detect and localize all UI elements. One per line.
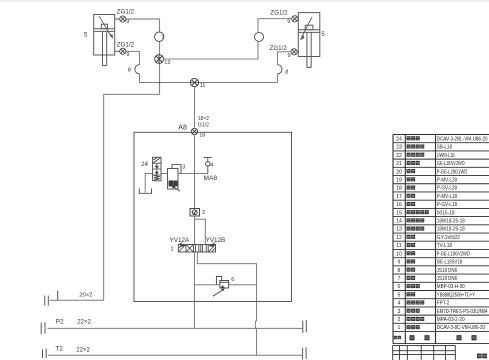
svg-text:9: 9 (126, 19, 129, 25)
pipe 20x2 (49, 299, 103, 301)
svg-text:21: 21 (396, 161, 402, 167)
svg-text:T2: T2 (55, 345, 63, 352)
svg-text:MA8: MA8 (204, 175, 218, 182)
coupling 9 (right mid): circle-X (291, 49, 298, 55)
pipe P2 break symbols (41, 322, 45, 334)
pipe P2 (48, 327, 303, 329)
svg-text:6: 6 (398, 284, 401, 290)
cylinder 5 (right) body (298, 13, 320, 68)
svg-text:20: 20 (396, 169, 402, 175)
svg-text:ZG1/2: ZG1/2 (117, 42, 135, 49)
svg-text:16: 16 (396, 202, 402, 208)
svg-text:14: 14 (396, 219, 402, 225)
manifold block outline (134, 132, 292, 301)
svg-text:YB888Q2506+TC+Y: YB888Q2506+TC+Y (437, 292, 476, 298)
svg-text:12: 12 (396, 235, 402, 241)
svg-text:11: 11 (200, 83, 206, 89)
svg-text:P-GE-L28G1WD: P-GE-L28G1WD (437, 169, 468, 175)
svg-text:4: 4 (398, 301, 401, 307)
T-line crossing jump over P2 (255, 320, 256, 356)
svg-text:JS18 DN6: JS18 DN6 (437, 268, 457, 274)
svg-text:DCAV-3-2BL-VM-U86-20: DCAV-3-2BL-VM-U86-20 (437, 136, 488, 142)
relief valve 6 (213, 276, 229, 296)
svg-text:UWM-L18: UWM-L18 (437, 153, 455, 159)
svg-text:13: 13 (396, 227, 402, 233)
coupling 9 (left mid): circle-X (115, 48, 126, 54)
pipe 20x2 break symbol (45, 296, 49, 306)
svg-text:22×2: 22×2 (76, 348, 90, 354)
wire: 2 down to valve 1, plus pilot branch (195, 216, 206, 245)
gauge point 4 / MA8 (204, 157, 213, 173)
svg-text:9: 9 (398, 260, 401, 266)
cylinder 5 (left) body (94, 15, 115, 66)
top edge strip (0, 0, 489, 2)
svg-text:GY-2x50/2: GY-2x50/2 (437, 235, 460, 241)
svg-text:SB-L18: SB-L18 (437, 145, 452, 151)
title block grid (393, 345, 456, 360)
svg-text:GE-L18SV18: GE-L18SV18 (437, 260, 462, 266)
cylinder 5 (right) load arrow (302, 17, 313, 38)
svg-text:12: 12 (164, 60, 170, 66)
svg-text:MPA-03-2-20: MPA-03-2-20 (437, 317, 465, 323)
svg-text:2: 2 (398, 317, 401, 323)
relief branch line (194, 284, 256, 286)
svg-text:9: 9 (288, 53, 291, 59)
svg-text:JS18 DN6: JS18 DN6 (437, 276, 457, 282)
svg-text:18×2: 18×2 (198, 116, 209, 122)
svg-text:1: 1 (171, 247, 174, 253)
gauge valve 11: circle-X (190, 79, 198, 87)
svg-text:YV12A: YV12A (170, 237, 190, 244)
svg-text:8: 8 (285, 69, 288, 75)
pipe 20x2 leader tick (57, 291, 59, 300)
svg-text:3: 3 (182, 165, 185, 171)
title block drawing-name text (477, 354, 482, 359)
wire: left top port to valve 7 drop (126, 18, 160, 20)
svg-text:9: 9 (287, 19, 290, 25)
svg-text:TV-L18: TV-L18 (437, 243, 452, 249)
svg-text:10: 10 (396, 251, 402, 257)
coupling 9 (right top): circle-X (292, 16, 299, 22)
svg-text:18: 18 (199, 133, 205, 139)
wire: right mid port to hose 8 (right) (277, 52, 291, 83)
wire: bottom cross line joining both cylinders (139, 82, 277, 84)
wire: 12 to right cylinder top-port drop (164, 58, 259, 60)
svg-text:P2: P2 (56, 318, 64, 325)
svg-text:24: 24 (396, 136, 402, 142)
svg-text:18W18-26-18: 18W18-26-18 (437, 227, 465, 233)
svg-text:FPT-2: FPT-2 (437, 301, 450, 307)
svg-text:GE-L18SV2WD: GE-L18SV2WD (437, 161, 465, 167)
hose 8 (left) (135, 65, 140, 74)
svg-text:P-GV-L18: P-GV-L18 (437, 202, 457, 208)
svg-text:11: 11 (396, 243, 401, 249)
wire: left return run to pipe 20x2 (104, 94, 160, 300)
svg-text:4: 4 (210, 162, 213, 168)
svg-text:ZG1/2: ZG1/2 (270, 45, 288, 52)
directional valve 1 (4/3) (178, 243, 215, 252)
wire: down from 11 to node A8 (194, 87, 196, 128)
svg-text:A8: A8 (178, 125, 187, 132)
svg-text:P-MV-L28: P-MV-L28 (437, 177, 457, 183)
svg-text:18W18-26-18: 18W18-26-18 (437, 219, 465, 225)
coupling 9 (left top): circle-X (115, 16, 126, 22)
wire: A8 down to orifice 2 (194, 135, 196, 208)
wire: right top port run (258, 19, 292, 59)
wire: valve 1 T-line to right drop (197, 252, 256, 321)
svg-text:1: 1 (398, 325, 401, 331)
svg-text:P-GV-L28: P-GV-L28 (437, 186, 457, 192)
svg-text:8: 8 (398, 268, 401, 274)
orifice 2 (190, 209, 200, 217)
svg-text:17: 17 (396, 194, 402, 200)
svg-text:DCAV-3-8C-VM-U86-20: DCAV-3-8C-VM-U86-20 (437, 325, 485, 331)
cylinder 5 (left) load arrow (99, 16, 111, 36)
BOM table frame (393, 135, 489, 344)
svg-text:15: 15 (396, 210, 402, 216)
svg-text:6: 6 (231, 277, 234, 283)
svg-text:9: 9 (126, 52, 129, 58)
junction dot (159, 82, 161, 84)
svg-text:ZG1/2: ZG1/2 (117, 8, 135, 15)
svg-text:5: 5 (398, 292, 401, 298)
wire: vertical through valves 7 and 12 (159, 19, 161, 94)
BOM header row (394, 336, 397, 339)
svg-text:7: 7 (398, 276, 401, 282)
svg-text:22: 22 (396, 153, 402, 159)
tank symbol (139, 189, 151, 194)
svg-text:7: 7 (161, 35, 164, 41)
svg-text:P-MV-L18: P-MV-L18 (437, 194, 457, 200)
svg-text:19: 19 (396, 177, 402, 183)
svg-text:EM7D-TRES-PS-03U/N04: EM7D-TRES-PS-03U/N04 (437, 309, 488, 315)
svg-text:20×2: 20×2 (79, 292, 92, 298)
gauge valve 12: circle-X (155, 55, 164, 64)
svg-text:YV12B: YV12B (206, 237, 226, 244)
svg-text:2: 2 (202, 210, 205, 216)
svg-text:23: 23 (396, 145, 402, 151)
svg-text:22×2: 22×2 (77, 320, 91, 326)
svg-text:0015-18: 0015-18 (437, 210, 455, 216)
branch line to MA8 through valves 24,23 (145, 172, 208, 174)
hose 8 (right) (277, 65, 282, 74)
wire: valve 1 P-line down to P2 (193, 252, 195, 328)
pipe T2 (48, 354, 302, 356)
svg-text:MBP-03-H-30: MBP-03-H-30 (437, 284, 465, 290)
wire: left mid port to hose 8 (126, 51, 139, 82)
svg-text:G1/2: G1/2 (198, 123, 209, 129)
svg-text:8: 8 (128, 68, 131, 74)
ball valve 7 (155, 32, 164, 41)
svg-text:24: 24 (141, 162, 148, 168)
reducing valve 23 (168, 165, 182, 192)
svg-text:P-GE-L18GV2WD: P-GE-L18GV2WD (437, 251, 470, 257)
svg-text:ZG1/2: ZG1/2 (270, 10, 288, 17)
pipe T2 break symbols (43, 349, 47, 358)
svg-text:18: 18 (396, 186, 402, 192)
coupling 18 at A8: circle-X (191, 128, 197, 134)
drain to tank from valve 24 (144, 173, 146, 192)
svg-text:3: 3 (398, 309, 401, 315)
solenoid valve 24 (153, 157, 161, 181)
ball valve 7 (right) (255, 32, 264, 41)
